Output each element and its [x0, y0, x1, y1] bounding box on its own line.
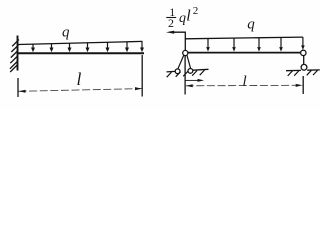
ground hatching (left support) [167, 70, 205, 77]
load arrow 1 (right beam) [206, 39, 210, 52]
load arrow 7 [140, 41, 144, 52]
fixed support wall [17, 36, 19, 71]
svg-text:l: l [186, 7, 191, 24]
distributed load line q [18, 41, 143, 44]
wall hatching [10, 40, 19, 73]
svg-text:q: q [247, 16, 255, 32]
load arrow 6 [125, 42, 129, 52]
beam (simply supported) [185, 52, 300, 54]
svg-text:l: l [77, 69, 82, 89]
dimension extension line right [141, 55, 143, 97]
roller circle right [188, 69, 193, 74]
load arrow 4 (right beam) [279, 37, 283, 51]
distributed load line q (right beam) [185, 37, 303, 39]
ground line (right support) [286, 69, 320, 72]
roller link (right support) [303, 55, 305, 64]
dimension extension line (right end) [302, 76, 304, 94]
load arrow 5 at roller end [301, 37, 305, 50]
svg-text:q: q [62, 24, 70, 40]
ground hatching (right support) [288, 70, 318, 76]
dimension extension line left [17, 78, 19, 97]
roller circle left [175, 69, 180, 74]
load arrow 4 [86, 43, 90, 52]
load arrow 3 [68, 43, 72, 52]
hinge circle (right support) [301, 50, 306, 55]
svg-text:q: q [179, 11, 186, 26]
moment label 1/2 q l^2 [168, 5, 198, 30]
pin support triangle legs [178, 55, 191, 69]
svg-text:2: 2 [168, 16, 174, 30]
moment arrow (1/2 ql^2 applied at left support) [166, 31, 185, 51]
load arrow 3 (right beam) [257, 38, 261, 52]
svg-text:2: 2 [193, 5, 199, 17]
load arrow 5 [106, 42, 110, 52]
load arrow 2 (right beam) [232, 38, 236, 52]
roller circle (right support) [301, 64, 307, 70]
load arrow 2 [50, 44, 54, 53]
short reference arrow at left support [186, 79, 205, 82]
support centre line / dimension extension (left support) [184, 56, 186, 95]
fraction bar [166, 17, 176, 19]
load arrow 1 [31, 44, 35, 52]
dimension line l [19, 87, 143, 93]
pin hinge circle [183, 50, 188, 55]
ground line (left support) [167, 69, 209, 72]
beam (cantilever) [18, 52, 145, 54]
dimension line l (right) [186, 84, 303, 87]
svg-text:l: l [243, 74, 247, 90]
